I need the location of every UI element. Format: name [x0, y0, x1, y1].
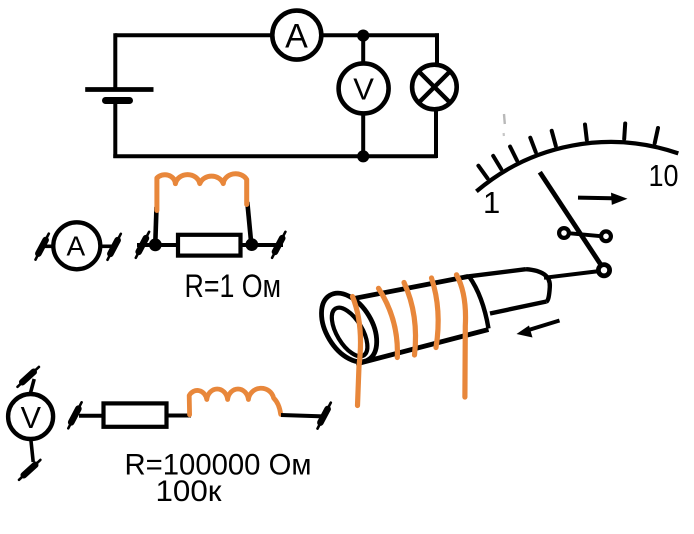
- wire shunt left to resistor: [155, 243, 180, 247]
- wire A2 left stub: [41, 245, 53, 249]
- solenoid tube bottom edge: [356, 330, 489, 365]
- winding 1 + tail (orange): [353, 297, 361, 406]
- wire left vertical upper: [113, 33, 117, 89]
- linkage bar: [569, 233, 602, 236]
- needle: [540, 172, 603, 268]
- svg-text:V: V: [353, 72, 374, 107]
- terminal chain right: [318, 403, 331, 429]
- terminal A2 left: [36, 234, 49, 260]
- wire left vertical lower: [113, 103, 117, 158]
- wire V2 top stub: [30, 379, 34, 394]
- lamp HL1 circle: [412, 65, 457, 110]
- node shunt right: [245, 238, 258, 251]
- resistor R1 body: [178, 235, 241, 256]
- wire V2 bottom stub: [31, 439, 33, 462]
- arrow right (needle direction): [578, 196, 618, 201]
- wire voltmeter branch upper: [361, 35, 365, 63]
- wire riser right (black): [247, 202, 251, 241]
- node junction top: [357, 29, 369, 41]
- wire right vertical lower: [434, 108, 438, 158]
- winding 5 + tail (orange): [457, 275, 466, 397]
- svg-text:R=1 Ом: R=1 Ом: [185, 268, 282, 304]
- winding 3 (orange): [404, 283, 416, 356]
- coil L1 (shunted coil, orange): [157, 174, 247, 211]
- wire voltmeter branch lower: [361, 113, 365, 156]
- solenoid tube top edge: [341, 277, 468, 302]
- faint dashes above scale: [503, 114, 506, 124]
- node junction bottom: [357, 150, 369, 162]
- wire shunt right stub: [252, 243, 283, 247]
- wire resistor R2 to coil: [166, 414, 191, 418]
- lamp HL1 cross: [419, 72, 449, 102]
- resistor R2 body: [104, 403, 167, 426]
- battery long plate: [85, 87, 153, 92]
- terminal V2 top: [18, 362, 39, 391]
- wire A2 right stub: [100, 245, 115, 249]
- terminal shunt left: [136, 232, 149, 258]
- svg-text:A: A: [285, 18, 308, 56]
- winding 4 (orange): [432, 278, 439, 348]
- plunger right rounded end: [526, 269, 550, 301]
- wire bottom horizontal: [113, 154, 437, 158]
- battery short plate: [106, 97, 130, 104]
- linkage ring small right: [601, 231, 611, 241]
- terminal V2 bottom: [19, 455, 40, 484]
- svg-text:A: A: [66, 231, 85, 262]
- plunger top edge: [465, 269, 526, 277]
- node shunt left: [149, 238, 162, 251]
- wire riser left (black): [155, 207, 156, 243]
- opening outer ellipse: [310, 284, 388, 372]
- wire coil to right terminal: [281, 415, 323, 416]
- ammeter A1 circle: [272, 11, 321, 60]
- svg-text:100к: 100к: [156, 475, 223, 508]
- solenoid tube right end edge: [469, 276, 489, 328]
- wire top-right horizontal: [320, 33, 439, 37]
- scale ticks: [478, 124, 658, 179]
- wire resistor to right node: [240, 243, 255, 247]
- arrow left (plunger motion): [527, 321, 560, 331]
- svg-text:1: 1: [483, 185, 500, 220]
- pivot ring: [598, 265, 609, 276]
- terminal shunt right: [272, 232, 285, 258]
- coil L2 (series coil, orange): [189, 388, 281, 415]
- plunger bottom edge: [490, 302, 547, 314]
- scale arc: [476, 142, 678, 191]
- terminal chain left: [68, 402, 81, 428]
- wire chain left: [79, 414, 104, 418]
- wire right vertical upper: [435, 33, 439, 66]
- svg-text:V: V: [21, 401, 42, 435]
- svg-text:10: 10: [649, 158, 679, 193]
- ammeter A2 circle: [53, 222, 100, 269]
- terminal A2 right: [108, 234, 121, 260]
- voltmeter V1 circle: [339, 63, 389, 113]
- wire top-left horizontal: [115, 33, 273, 37]
- wire shunt left stub: [137, 243, 158, 247]
- rod from plunger to pivot: [544, 271, 600, 278]
- opening inner ellipse: [325, 302, 375, 362]
- linkage ring small left: [559, 228, 569, 238]
- winding 2 (orange): [379, 288, 398, 357]
- voltmeter V2 circle: [8, 394, 53, 439]
